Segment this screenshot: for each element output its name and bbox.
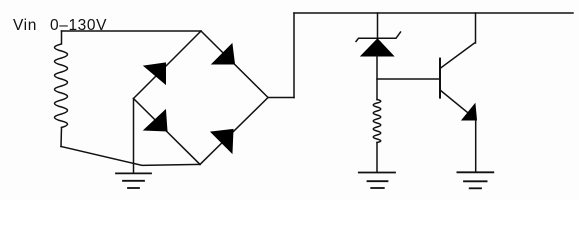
- resistor R2 (right, vertical): [373, 100, 381, 143]
- diode D3 arrow on bottom-left arm: [144, 110, 167, 131]
- transistor Q1 emitter: [440, 90, 473, 117]
- wire top rail: [294, 12, 573, 14]
- transistor Q1 base bar: [439, 59, 441, 98]
- transistor Q1 collector: [440, 13, 476, 69]
- wire zener top lead: [377, 13, 379, 38]
- resistor R1 (left, vertical): [55, 31, 68, 128]
- wire bridge arm top-left (top corner to left corner): [134, 31, 202, 99]
- ground (middle, below R2): [359, 173, 395, 189]
- wire R2 bottom lead: [376, 143, 378, 173]
- zener diode Z1 triangle: [361, 39, 394, 56]
- ground (left, below bridge): [116, 173, 151, 188]
- wire resistor R1 bottom lead: [60, 128, 63, 147]
- wire from R1 bottom to bridge bottom corner: [61, 147, 200, 166]
- wire bridge arm top-right (top corner to right corner): [201, 31, 268, 98]
- wire bridge left corner down to ground: [133, 99, 135, 174]
- wire bridge arm bottom-left (left corner to bottom corner): [134, 99, 201, 165]
- diode D2 arrow on top-right arm: [212, 44, 235, 64]
- transistor Q1 emitter arrow: [462, 104, 477, 120]
- diode D1 arrow on top-left arm: [144, 63, 166, 84]
- zener diode Z1 cathode bar: [356, 32, 401, 42]
- wire bridge arm bottom-right (bottom corner to right corner): [200, 98, 268, 165]
- ground (right, below emitter): [457, 172, 493, 188]
- wire base wire to transistor Q1: [377, 78, 440, 80]
- wire top-left from resistor R1 top to bridge top corner: [62, 30, 202, 32]
- wire emitter down to ground: [475, 120, 477, 172]
- wire bridge right corner to riser: [268, 97, 294, 99]
- wire riser up: [293, 13, 295, 98]
- svg-text:Vin: Vin: [13, 17, 37, 34]
- wire zener bottom to resistor R2: [376, 56, 378, 100]
- diode D4 arrow on bottom-right arm: [211, 129, 233, 153]
